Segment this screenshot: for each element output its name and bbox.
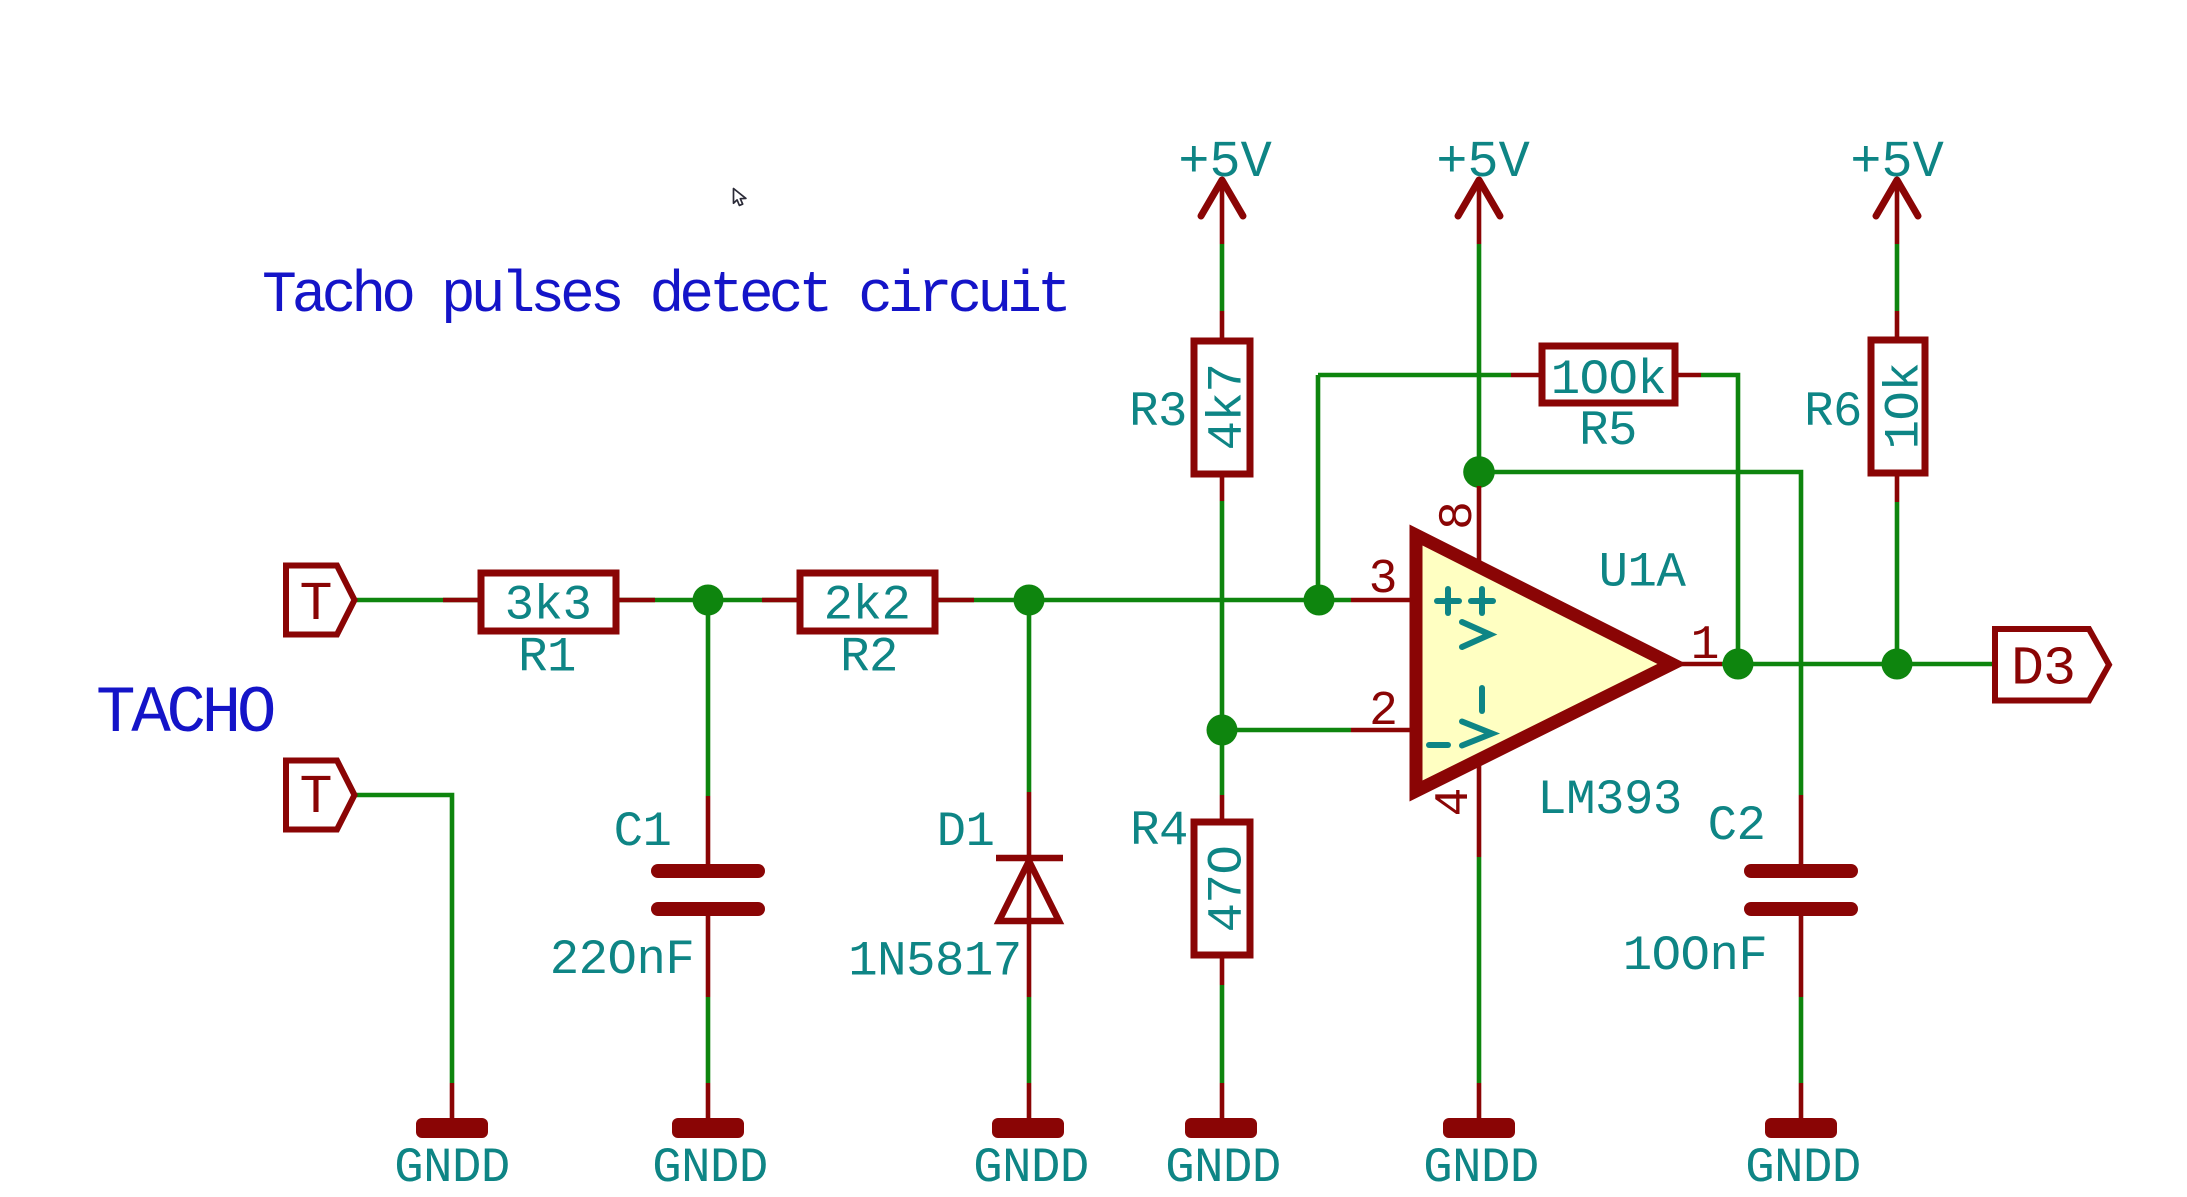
wire: R5 right to output node (1701, 375, 1738, 664)
resistor R6 (1804, 340, 1932, 473)
svg-text:D1: D1 (937, 804, 995, 860)
svg-text:22OnF: 22OnF (550, 932, 695, 988)
svg-text:TACHO: TACHO (96, 676, 274, 751)
svg-text:47O: 47O (1200, 846, 1256, 933)
op-amp U1 (1369, 503, 1718, 828)
svg-text:+5V: +5V (1178, 133, 1272, 192)
resistor R2 (800, 573, 935, 686)
pin: R2 left (762, 598, 800, 603)
global label T (signal) (286, 566, 355, 637)
svg-text:1: 1 (1691, 619, 1718, 673)
node R1/R2/C1 (693, 585, 724, 616)
ground GNDD (U1 pin4) (1423, 1118, 1539, 1196)
pin: R6 bottom (1895, 473, 1900, 502)
diode D1 (848, 804, 1063, 990)
svg-text:4k7: 4k7 (1200, 364, 1256, 451)
resistor R4 (1130, 803, 1255, 955)
pin: D1 through line (1027, 792, 1032, 997)
svg-text:C2: C2 (1708, 798, 1766, 854)
power +5V (R6) (1850, 133, 1944, 216)
svg-text:8: 8 (1432, 503, 1486, 530)
pin: R4 bottom (1220, 955, 1225, 985)
svg-text:2k2: 2k2 (824, 578, 911, 634)
svg-text:R2: R2 (840, 630, 898, 686)
svg-text:GNDD: GNDD (1745, 1140, 1861, 1196)
capacitor C2 (1623, 798, 1851, 984)
ground GNDD (T input) (394, 1118, 510, 1196)
pin: +5V stub (R6) (1895, 180, 1900, 244)
pin: GNDD stub (C1) (706, 1083, 711, 1118)
svg-text:T: T (299, 766, 332, 829)
node pin3 (1304, 585, 1335, 616)
pin: R5 right (1675, 373, 1701, 378)
svg-text:GNDD: GNDD (1165, 1140, 1281, 1196)
svg-text:4: 4 (1428, 789, 1482, 816)
svg-text:1N5817: 1N5817 (848, 934, 1021, 990)
pin: GNDD stub (R4) (1220, 1083, 1225, 1118)
pin: R3 top (1220, 311, 1225, 341)
pin: R5 left (1511, 373, 1542, 378)
svg-text:R5: R5 (1579, 403, 1637, 459)
svg-text:2: 2 (1369, 685, 1396, 739)
resistor R3 (1129, 341, 1255, 474)
wire: main signal T to pin 3 (354, 598, 1351, 603)
wire: +5V node to C2 (1479, 472, 1801, 795)
svg-text:+5V: +5V (1850, 133, 1944, 192)
pin: U1 pin 2 (1351, 728, 1415, 733)
pin: +5V stub (R3) (1220, 180, 1225, 244)
node junctions (693, 456, 1913, 745)
svg-text:GNDD: GNDD (394, 1140, 510, 1196)
svg-text:R1: R1 (518, 630, 576, 686)
svg-text:1OOk: 1OOk (1551, 352, 1667, 408)
pin: GNDD stub (T return) (450, 1083, 455, 1118)
wire: D1 to GNDD (1027, 997, 1032, 1083)
wire: R4 to GNDD (1220, 985, 1225, 1083)
pin: U1 pin 1 (1672, 662, 1722, 667)
pin: R2 right (935, 598, 974, 603)
svg-text:R4: R4 (1130, 803, 1188, 859)
wire: C2 to GNDD (1799, 997, 1804, 1083)
svg-text:GNDD: GNDD (1423, 1140, 1539, 1196)
pin: U1 pin 4 (1477, 761, 1482, 857)
global label T (return) (286, 761, 355, 830)
pin: U1 pin 8 (1477, 486, 1482, 567)
node +5V pin8 (1463, 456, 1495, 488)
wire: divider node to pin 2 (1222, 728, 1351, 733)
pin: +5V stub (pin 8) (1477, 180, 1482, 244)
mouse cursor (734, 189, 746, 206)
svg-text:C1: C1 (614, 804, 672, 860)
resistor R1 (481, 573, 616, 686)
node R2/D1 (1014, 585, 1045, 616)
wire: C1 to GNDD (706, 997, 711, 1083)
wire: node A down to C1 (706, 600, 711, 796)
resistor R5 (1542, 346, 1675, 459)
svg-text:+5V: +5V (1436, 133, 1530, 192)
pin: C1 top (706, 796, 711, 864)
ground GNDD (C1) (652, 1118, 768, 1196)
pin: R6 top (1895, 311, 1900, 340)
pin: U1 pin 3 (1351, 598, 1415, 603)
svg-text:GNDD: GNDD (652, 1140, 768, 1196)
svg-text:D3: D3 (2011, 638, 2075, 701)
svg-text:Tacho pulses detect circuit: Tacho pulses detect circuit (262, 264, 1067, 329)
capacitor C1 (550, 804, 758, 988)
wire: R5 left to pin 3 net (horizontal) (1318, 373, 1511, 378)
pin: GNDD stub (C2) (1799, 1083, 1804, 1118)
ground GNDD (R4) (1165, 1118, 1281, 1196)
node output R5 (1723, 649, 1754, 680)
svg-text:LM393: LM393 (1537, 772, 1682, 828)
ground GNDD (D1) (973, 1118, 1089, 1196)
ground GNDD (C2) (1745, 1118, 1861, 1196)
svg-text:R6: R6 (1804, 384, 1862, 440)
svg-text:3: 3 (1369, 553, 1396, 607)
svg-text:3k3: 3k3 (505, 578, 592, 634)
pin: C1 bottom (706, 915, 711, 997)
node pin2 divider (1207, 715, 1238, 746)
wire: T return to GNDD (354, 795, 452, 1083)
node output R6 (1882, 649, 1913, 680)
wire: pin 4 to GNDD (1477, 857, 1482, 1083)
wire: output pin 1 to D3 (1722, 662, 1995, 667)
wire: +5V to pin 8 (1477, 244, 1482, 486)
pin: R1 right (616, 598, 655, 603)
svg-text:U1A: U1A (1599, 545, 1687, 601)
wire: R3 to R4 divider (node pin2) (1220, 501, 1225, 795)
pin: R3 bottom (1220, 474, 1225, 501)
power +5V (R3) (1178, 133, 1272, 216)
wire: R5 left to pin 3 net (vertical) (1316, 375, 1321, 600)
svg-text:GNDD: GNDD (973, 1140, 1089, 1196)
pin: GNDD stub (D1) (1027, 1083, 1032, 1118)
svg-text:1OOnF: 1OOnF (1623, 928, 1768, 984)
wire: +5V to R3 (1220, 244, 1225, 311)
wire: node B down to D1 (1027, 600, 1032, 792)
svg-text:T: T (299, 573, 332, 636)
power +5V (U1 pin8) (1436, 133, 1530, 216)
pin: C2 bottom (1799, 916, 1804, 997)
wire: R6 to output node (1895, 502, 1900, 664)
pin: R4 top (1220, 795, 1225, 822)
wire: +5V to R6 (1895, 244, 1900, 311)
svg-text:1Ok: 1Ok (1877, 363, 1933, 450)
pin: GNDD stub (U1 pin 4) (1477, 1083, 1482, 1118)
pin: R1 left (443, 598, 481, 603)
svg-text:R3: R3 (1129, 384, 1187, 440)
pin: C2 top (1799, 795, 1804, 864)
global label D3 (output) (1995, 629, 2109, 701)
